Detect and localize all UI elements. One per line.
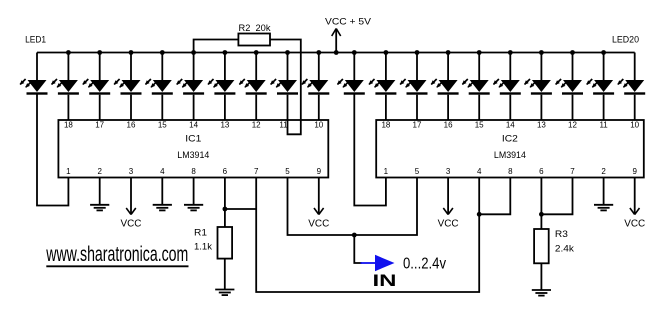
wire +5V supply bus xyxy=(37,52,635,54)
svg-text:2: 2 xyxy=(97,167,102,176)
wire R2 left lead to +5V bus junction xyxy=(194,40,239,53)
svg-text:LED1: LED1 xyxy=(25,35,46,46)
LED LED11 xyxy=(337,50,365,95)
watermark www.sharatronica.com xyxy=(46,243,189,266)
resistor R3 2.4k xyxy=(534,229,574,263)
svg-text:12: 12 xyxy=(568,120,577,129)
wire IC2 pin 8 to pin 4 junction xyxy=(479,178,510,215)
ground below R1 xyxy=(215,290,234,296)
power VCC +5V supply arrow xyxy=(325,17,372,55)
svg-text:7: 7 xyxy=(570,167,575,176)
LED LED18 xyxy=(555,50,583,120)
LED LED20 xyxy=(617,53,645,121)
svg-text:8: 8 xyxy=(508,167,513,176)
input port IN connector xyxy=(361,255,395,271)
op-amp-driver IC1 LM3914 body xyxy=(58,120,328,178)
wire signal net IC1 pin 5 to IC2 pin 5 xyxy=(288,178,418,236)
svg-text:R2 20k: R2 20k xyxy=(239,23,271,34)
LED LED2 xyxy=(51,50,79,120)
svg-text:1: 1 xyxy=(66,167,71,176)
svg-text:8: 8 xyxy=(191,167,196,176)
svg-text:VCC: VCC xyxy=(121,218,142,229)
svg-text:LM3914: LM3914 xyxy=(177,150,209,161)
svg-text:14: 14 xyxy=(189,120,198,129)
power VCC at IC2 pin 3 xyxy=(438,178,459,230)
svg-text:0...2.4v: 0...2.4v xyxy=(403,256,446,273)
LED LED8 xyxy=(239,50,267,120)
LED LED17 xyxy=(524,50,552,120)
LED LED19 xyxy=(586,50,614,120)
ground below R3 xyxy=(532,290,551,296)
resistor R2 xyxy=(238,23,270,46)
svg-text:5: 5 xyxy=(285,167,290,176)
power VCC at IC1 pin 9 xyxy=(308,178,329,230)
LED LED13 xyxy=(400,50,428,120)
svg-text:11: 11 xyxy=(279,120,288,129)
power VCC at IC2 pin 9 xyxy=(624,178,645,230)
LED LED3 xyxy=(82,50,110,120)
svg-text:1.1k: 1.1k xyxy=(194,241,212,252)
svg-text:VCC: VCC xyxy=(624,218,645,229)
svg-text:3: 3 xyxy=(446,167,451,176)
wire R3 to ground xyxy=(540,263,542,290)
svg-text:18: 18 xyxy=(381,120,390,129)
LED LED12 xyxy=(369,50,397,120)
svg-text:IC1: IC1 xyxy=(185,134,201,145)
svg-text:IC2: IC2 xyxy=(502,134,518,145)
svg-text:www.sharatronica.com: www.sharatronica.com xyxy=(46,243,189,266)
ground at IC1 pin 8 xyxy=(184,178,203,211)
svg-text:16: 16 xyxy=(444,120,453,129)
svg-text:6: 6 xyxy=(539,167,544,176)
svg-text:2: 2 xyxy=(601,167,606,176)
wire LED11 cathode to IC2 pin 1 xyxy=(354,94,386,206)
svg-text:13: 13 xyxy=(537,120,546,129)
svg-text:R3: R3 xyxy=(555,229,568,240)
svg-text:7: 7 xyxy=(254,167,259,176)
LED LED1 xyxy=(20,53,48,95)
svg-text:18: 18 xyxy=(64,120,73,129)
ground at IC2 pin 2 xyxy=(594,178,613,211)
LED LED9 xyxy=(270,50,298,120)
op-amp-driver IC2 LM3914 body xyxy=(376,120,644,178)
svg-text:14: 14 xyxy=(506,120,515,129)
wire LED1 cathode to IC1 pin 1 xyxy=(37,94,68,206)
wire IC1 pin 7 to IC2 pin 4 xyxy=(256,178,479,293)
LED LED16 xyxy=(493,50,521,120)
svg-text:1: 1 xyxy=(384,167,389,176)
svg-text:17: 17 xyxy=(413,120,422,129)
svg-text:LM3914: LM3914 xyxy=(494,150,526,161)
LED LED7 xyxy=(208,50,236,120)
LED LED5 xyxy=(145,50,173,120)
svg-text:17: 17 xyxy=(95,120,104,129)
svg-text:VCC: VCC xyxy=(438,218,459,229)
ground at IC1 pin 4 xyxy=(153,178,172,211)
wire R2 right lead to IC1 pin 11 xyxy=(270,40,301,135)
svg-text:12: 12 xyxy=(252,120,261,129)
svg-text:9: 9 xyxy=(632,167,637,176)
LED LED6 xyxy=(176,50,204,120)
junction at IC2 pin 4 xyxy=(477,212,482,217)
svg-text:LED20: LED20 xyxy=(612,35,639,46)
LED LED10 xyxy=(302,50,330,120)
svg-text:6: 6 xyxy=(223,167,228,176)
svg-text:11: 11 xyxy=(599,120,608,129)
svg-text:3: 3 xyxy=(129,167,134,176)
svg-text:16: 16 xyxy=(127,120,136,129)
svg-text:VCC: VCC xyxy=(308,218,329,229)
svg-text:13: 13 xyxy=(220,120,229,129)
svg-text:5: 5 xyxy=(415,167,420,176)
svg-text:R1: R1 xyxy=(194,228,207,239)
svg-text:10: 10 xyxy=(630,120,639,129)
svg-text:4: 4 xyxy=(477,167,482,176)
svg-text:9: 9 xyxy=(317,167,322,176)
svg-text:2.4k: 2.4k xyxy=(555,244,574,255)
svg-text:10: 10 xyxy=(314,120,323,129)
wire IC2 pin 6 to R3 and pin 7 xyxy=(539,178,573,230)
svg-text:IN: IN xyxy=(373,272,397,290)
svg-text:4: 4 xyxy=(160,167,165,176)
wire IC1 pin 6 to R1 and pin 7 junction xyxy=(223,178,257,228)
ground at IC1 pin 2 xyxy=(90,178,109,211)
power VCC at IC1 pin 3 xyxy=(121,178,142,230)
LED LED4 xyxy=(114,50,142,120)
resistor R1 1.1k xyxy=(194,227,232,259)
wire input tap to IN port xyxy=(354,235,362,263)
wire R1 to ground xyxy=(224,259,226,290)
junction signal net input tap xyxy=(352,233,357,238)
svg-text:15: 15 xyxy=(158,120,167,129)
LED LED14 xyxy=(431,50,459,120)
svg-text:VCC + 5V: VCC + 5V xyxy=(325,17,372,28)
svg-text:15: 15 xyxy=(475,120,484,129)
LED LED15 xyxy=(462,50,490,120)
